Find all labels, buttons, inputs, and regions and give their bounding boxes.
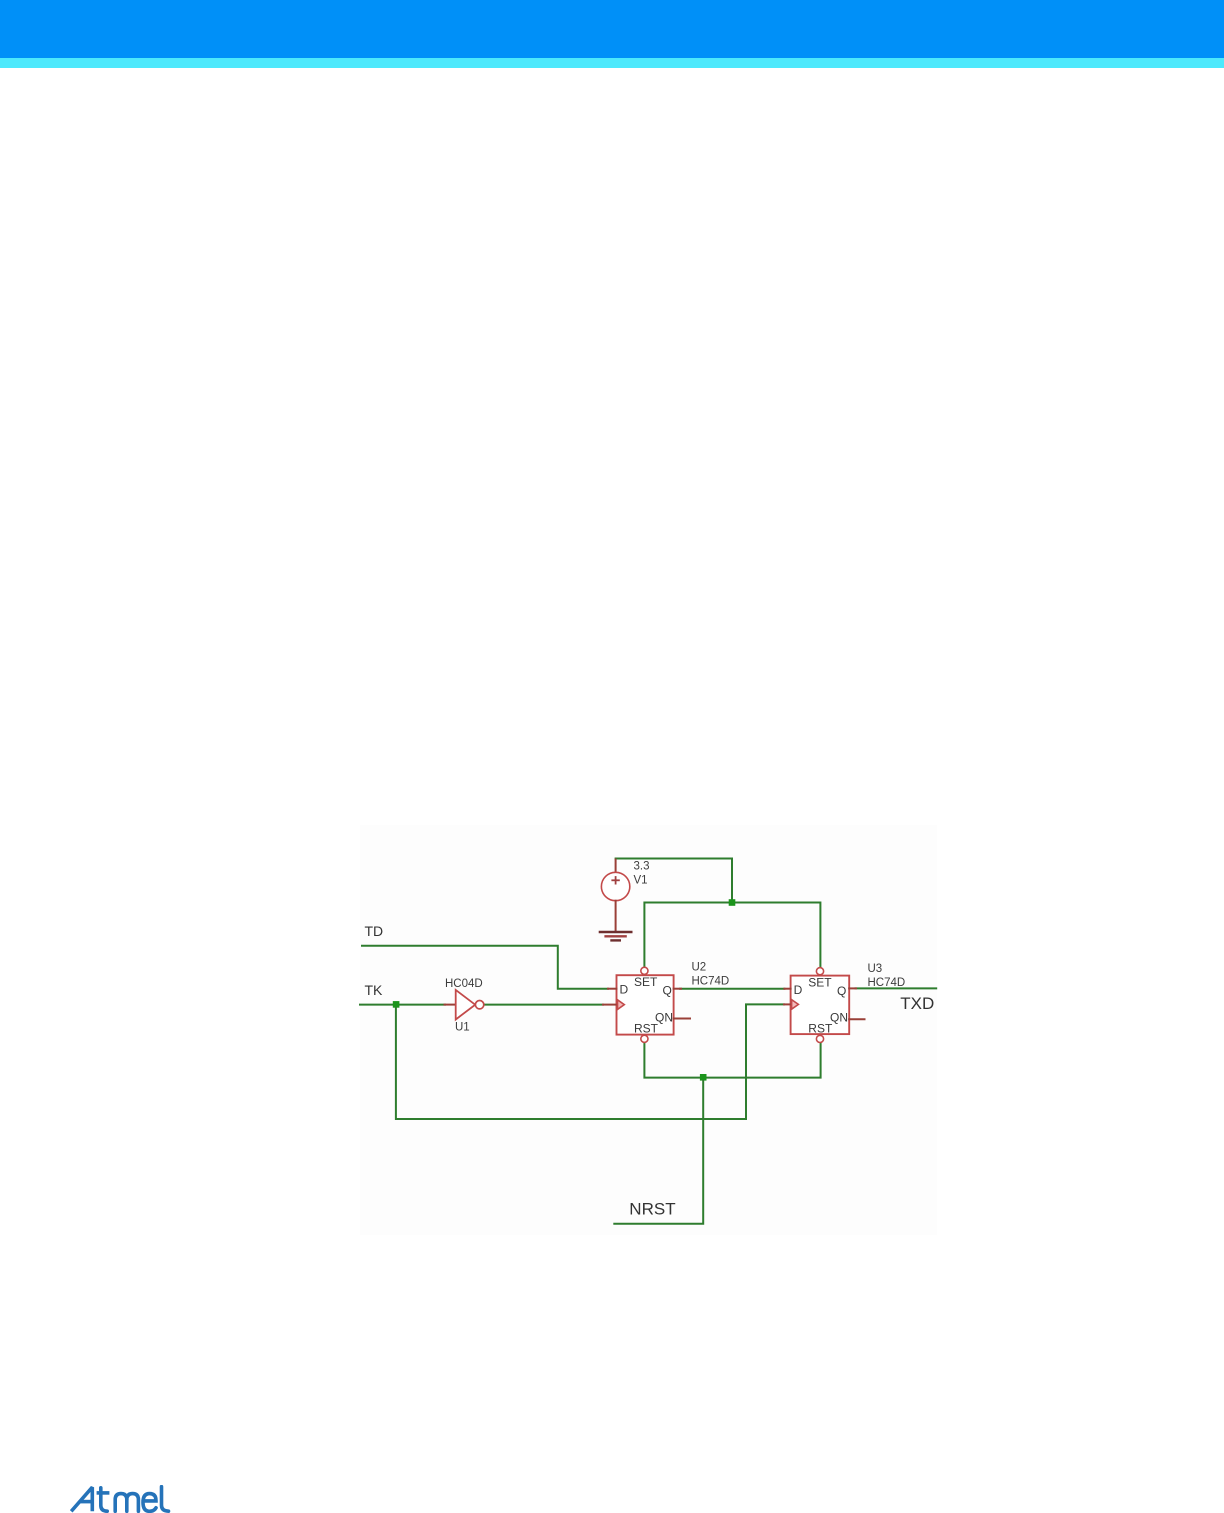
svg-text:U2: U2 <box>692 961 707 973</box>
svg-text:TD: TD <box>365 923 384 939</box>
wire: V1 top to corner <box>616 859 732 903</box>
svg-text:V1: V1 <box>634 875 648 887</box>
node junction J3 <box>700 1074 707 1081</box>
svg-text:SET: SET <box>634 975 658 989</box>
svg-text:TK: TK <box>365 982 384 998</box>
Atmel logo <box>70 1485 175 1513</box>
svg-text:U3: U3 <box>868 963 883 975</box>
wire: TK net <box>360 1004 445 1006</box>
voltage source V1 <box>601 860 649 933</box>
wire: NRST net <box>614 1081 703 1224</box>
flip-flop U3 <box>784 963 905 1043</box>
svg-text:Q: Q <box>837 984 846 998</box>
svg-text:3.3: 3.3 <box>634 861 650 873</box>
svg-text:HC04D: HC04D <box>445 978 483 990</box>
svg-text:RST: RST <box>634 1022 659 1036</box>
wire: U2 Q to U3 D <box>680 988 784 990</box>
wire: U1 output to U2 clock <box>484 1004 603 1006</box>
node junction J1 <box>729 899 736 906</box>
svg-text:U1: U1 <box>455 1022 470 1034</box>
ground <box>600 932 631 940</box>
svg-text:HC74D: HC74D <box>692 975 730 987</box>
flip-flop U2 <box>603 961 729 1042</box>
wire: U3 Q to TXD <box>856 987 937 989</box>
wire: SET rail U2 to U3 <box>644 903 820 968</box>
svg-text:TXD: TXD <box>900 994 934 1013</box>
wire: TK feedback to U3 clock <box>396 1004 784 1119</box>
wire: TD net <box>362 946 608 989</box>
header blue bar <box>0 0 1224 58</box>
svg-text:NRST: NRST <box>629 1200 675 1219</box>
svg-text:D: D <box>620 983 629 997</box>
svg-text:D: D <box>794 983 803 997</box>
svg-text:Q: Q <box>663 984 672 998</box>
inverter U1 <box>445 978 484 1034</box>
svg-text:SET: SET <box>808 975 832 989</box>
schematic image background <box>360 825 937 1235</box>
header cyan strip <box>0 58 1224 68</box>
svg-text:QN: QN <box>830 1011 848 1025</box>
svg-text:HC74D: HC74D <box>868 977 906 989</box>
node junction J2 <box>393 1001 400 1008</box>
svg-text:RST: RST <box>808 1022 833 1036</box>
wire: RST rail <box>644 1042 820 1077</box>
